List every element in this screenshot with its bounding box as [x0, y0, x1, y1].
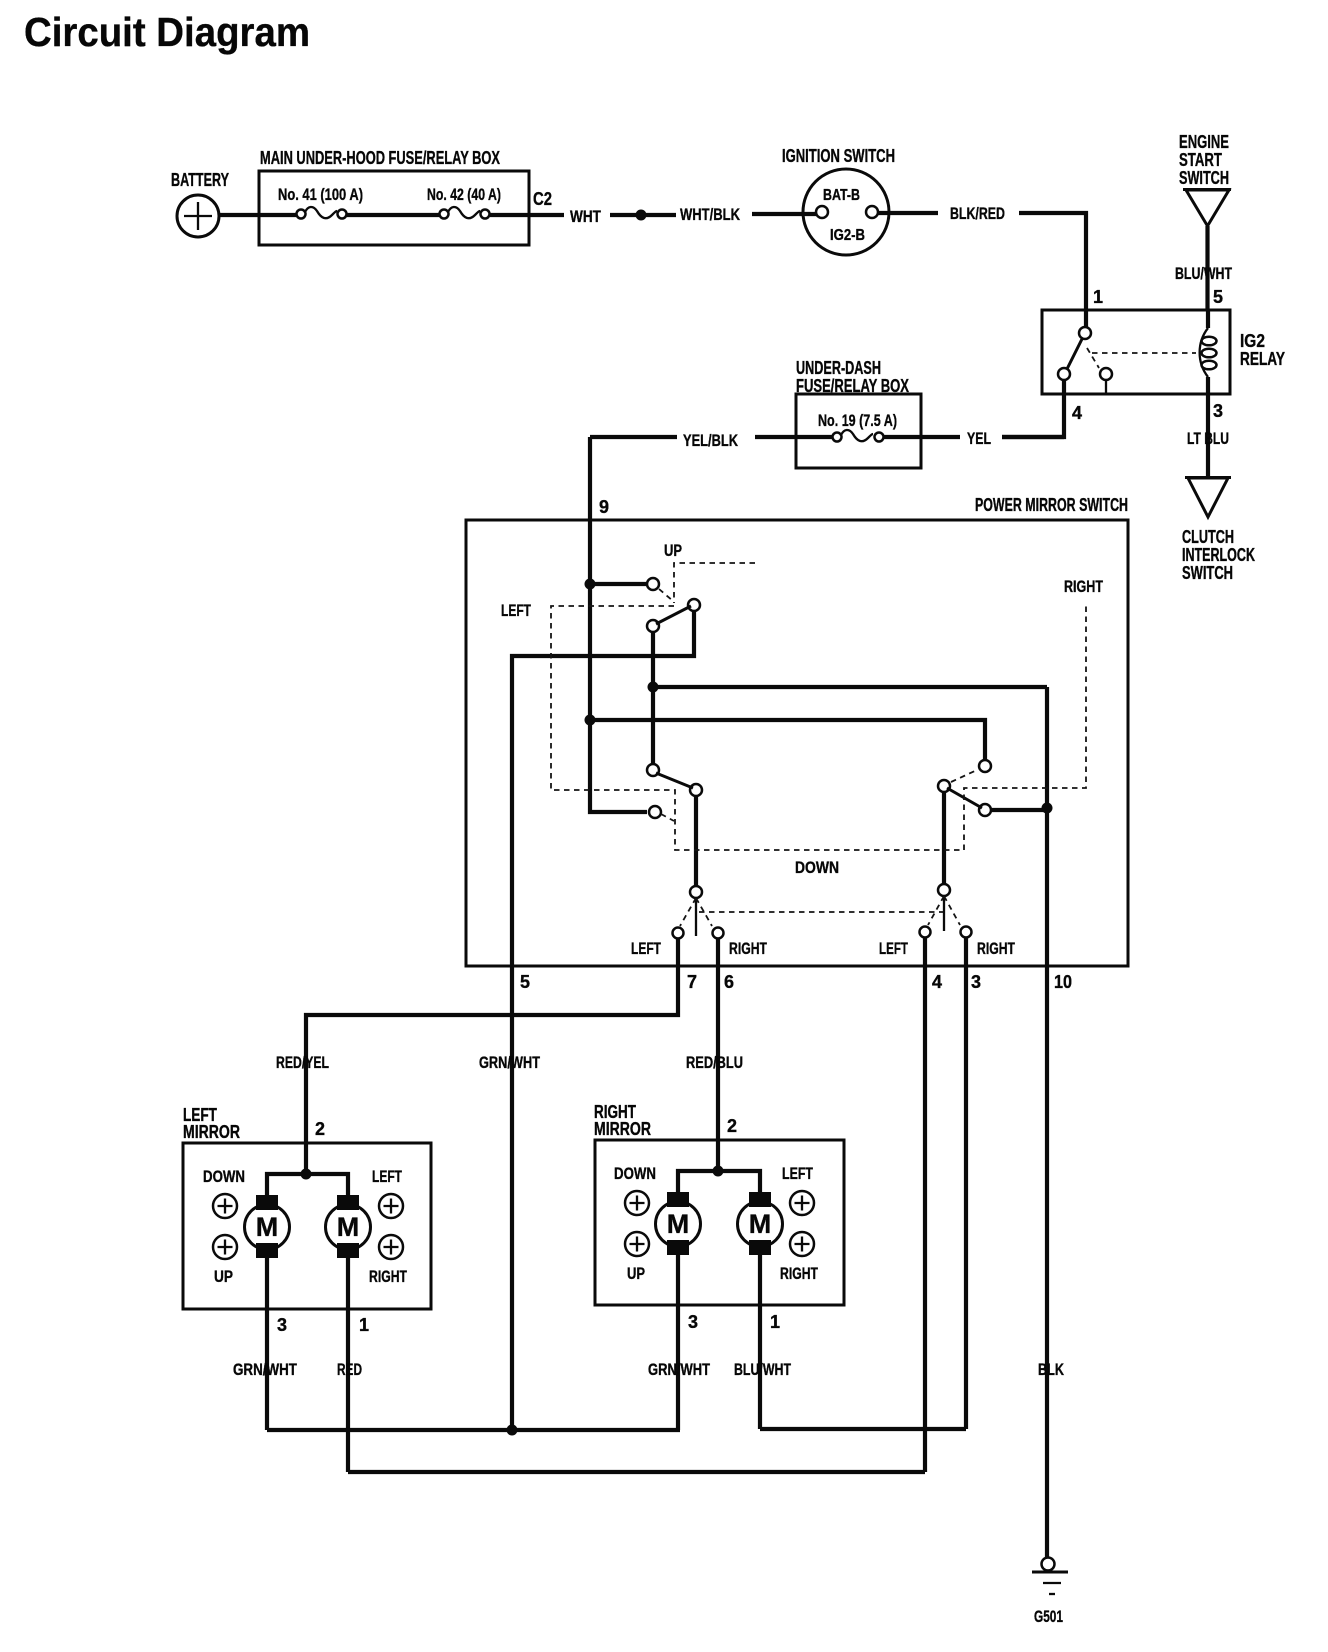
- svg-text:UNDER-DASH: UNDER-DASH: [796, 358, 881, 378]
- svg-text:M: M: [256, 1212, 279, 1242]
- svg-text:BAT-B: BAT-B: [823, 187, 860, 204]
- svg-text:M: M: [667, 1209, 690, 1239]
- svg-text:SWITCH: SWITCH: [1182, 563, 1233, 583]
- svg-text:DOWN: DOWN: [203, 1167, 245, 1186]
- svg-text:3: 3: [1213, 401, 1223, 421]
- svg-text:UP: UP: [664, 541, 682, 560]
- svg-text:1: 1: [359, 1315, 369, 1335]
- svg-text:LT BLU: LT BLU: [1187, 429, 1229, 448]
- svg-text:LEFT: LEFT: [782, 1164, 813, 1183]
- svg-text:DOWN: DOWN: [614, 1164, 656, 1183]
- svg-text:2: 2: [315, 1119, 325, 1139]
- svg-text:DOWN: DOWN: [795, 858, 839, 877]
- svg-text:5: 5: [1213, 287, 1223, 307]
- svg-text:LEFT: LEFT: [501, 601, 531, 620]
- svg-text:10: 10: [1054, 972, 1072, 992]
- svg-text:RIGHT: RIGHT: [977, 939, 1015, 958]
- svg-text:6: 6: [724, 972, 734, 992]
- svg-text:WHT: WHT: [570, 207, 601, 226]
- svg-text:7: 7: [687, 972, 697, 992]
- svg-text:RIGHT: RIGHT: [729, 939, 767, 958]
- svg-text:No. 42 (40 A): No. 42 (40 A): [427, 185, 501, 204]
- svg-text:LEFT: LEFT: [879, 939, 908, 958]
- svg-text:3: 3: [688, 1312, 698, 1332]
- svg-text:C2: C2: [533, 189, 552, 209]
- svg-text:MIRROR: MIRROR: [594, 1119, 651, 1139]
- svg-text:5: 5: [520, 972, 530, 992]
- svg-text:INTERLOCK: INTERLOCK: [1182, 545, 1255, 565]
- svg-text:RIGHT: RIGHT: [369, 1267, 407, 1286]
- svg-text:BATTERY: BATTERY: [171, 170, 229, 190]
- svg-text:UP: UP: [214, 1267, 233, 1286]
- svg-text:M: M: [337, 1212, 360, 1242]
- svg-text:LEFT: LEFT: [631, 939, 661, 958]
- svg-text:3: 3: [971, 972, 981, 992]
- svg-text:1: 1: [1093, 287, 1103, 307]
- svg-text:RED/YEL: RED/YEL: [276, 1053, 329, 1072]
- svg-text:RED/BLU: RED/BLU: [686, 1053, 743, 1072]
- svg-text:9: 9: [599, 497, 609, 517]
- svg-text:4: 4: [1072, 403, 1082, 423]
- svg-text:BLK: BLK: [1038, 1360, 1065, 1379]
- svg-text:BLK/RED: BLK/RED: [950, 204, 1005, 223]
- svg-text:GRN/WHT: GRN/WHT: [479, 1053, 540, 1072]
- svg-text:No. 19 (7.5 A): No. 19 (7.5 A): [818, 411, 897, 430]
- svg-text:3: 3: [277, 1315, 287, 1335]
- svg-text:MAIN UNDER-HOOD FUSE/RELAY BOX: MAIN UNDER-HOOD FUSE/RELAY BOX: [260, 148, 500, 168]
- svg-text:BLU/WHT: BLU/WHT: [734, 1360, 791, 1379]
- svg-text:Circuit Diagram: Circuit Diagram: [24, 9, 310, 55]
- svg-text:IG2-B: IG2-B: [830, 227, 865, 244]
- svg-text:CLUTCH: CLUTCH: [1182, 527, 1234, 547]
- svg-text:M: M: [749, 1209, 772, 1239]
- svg-text:BLU/WHT: BLU/WHT: [1175, 264, 1232, 283]
- svg-text:ENGINE: ENGINE: [1179, 132, 1229, 152]
- svg-text:2: 2: [727, 1116, 737, 1136]
- svg-text:YEL: YEL: [967, 429, 991, 448]
- svg-text:MIRROR: MIRROR: [183, 1122, 240, 1142]
- svg-text:WHT/BLK: WHT/BLK: [680, 205, 741, 224]
- svg-text:IG2: IG2: [1240, 331, 1265, 351]
- svg-text:No. 41 (100 A): No. 41 (100 A): [278, 185, 363, 204]
- svg-text:RIGHT: RIGHT: [780, 1264, 818, 1283]
- svg-text:G501: G501: [1034, 1607, 1063, 1626]
- svg-text:RED: RED: [337, 1360, 362, 1379]
- svg-text:GRN/WHT: GRN/WHT: [233, 1360, 297, 1379]
- svg-text:UP: UP: [627, 1264, 645, 1283]
- svg-text:IGNITION SWITCH: IGNITION SWITCH: [782, 146, 895, 166]
- svg-text:RELAY: RELAY: [1240, 349, 1285, 369]
- svg-text:GRN/WHT: GRN/WHT: [648, 1360, 710, 1379]
- svg-text:LEFT: LEFT: [372, 1167, 402, 1186]
- svg-text:4: 4: [932, 972, 942, 992]
- svg-text:1: 1: [770, 1312, 780, 1332]
- svg-text:POWER MIRROR SWITCH: POWER MIRROR SWITCH: [975, 495, 1128, 515]
- svg-text:START: START: [1179, 150, 1222, 170]
- svg-text:RIGHT: RIGHT: [1064, 577, 1103, 596]
- svg-text:YEL/BLK: YEL/BLK: [683, 431, 739, 450]
- svg-text:SWITCH: SWITCH: [1179, 168, 1229, 188]
